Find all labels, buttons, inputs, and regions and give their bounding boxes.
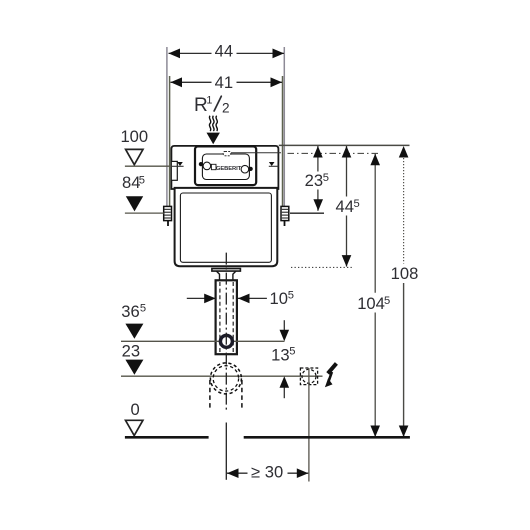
- dimension >=30 right arrow: [297, 468, 309, 478]
- level line 36.5: [121, 340, 285, 342]
- dimension 108 vertical line dotted part: [403, 152, 405, 264]
- dimension 44.5 top arrow: [342, 146, 352, 158]
- drain pipe dashed wall left: [209, 380, 211, 409]
- dimension >=30 left arrow: [227, 468, 239, 478]
- right frame rail inner: [282, 76, 284, 207]
- datum triangle 0 (open): [126, 420, 143, 435]
- svg-text:41: 41: [215, 73, 233, 92]
- svg-text:10: 10: [270, 289, 288, 308]
- svg-text:44: 44: [215, 42, 233, 61]
- cistern upper housing: [171, 146, 278, 189]
- left frame rail inner: [169, 76, 171, 207]
- svg-text:GEBERIT: GEBERIT: [216, 166, 242, 172]
- flush pipe body: [216, 280, 237, 354]
- svg-text:5: 5: [140, 302, 146, 314]
- water inlet arrow: [207, 133, 220, 145]
- tank outer: [175, 188, 278, 266]
- actuation tab: [223, 151, 231, 155]
- svg-text:23: 23: [305, 171, 323, 190]
- access panel outer: [195, 146, 256, 185]
- floor line left segment: [125, 436, 209, 439]
- dimension 23.5 bottom arrow: [313, 199, 323, 211]
- dimension 44.5 bottom arrow: [342, 255, 352, 267]
- dimension 41 right arrow: [271, 77, 283, 87]
- right water level mark: [269, 162, 279, 166]
- left screw circle: [203, 162, 211, 170]
- dimension 13.5 lower arrow: [283, 386, 285, 398]
- dimension 10.5: [187, 297, 267, 299]
- center axis line: [225, 253, 227, 412]
- dimension 23.5 vertical line: [317, 146, 319, 211]
- dimension 41 line: [171, 81, 283, 83]
- right frame rail outer: [283, 47, 285, 213]
- svg-text:5: 5: [384, 295, 390, 307]
- flush pipe inner dashed walls: [220, 282, 233, 353]
- dimension 13.5 upper arrow: [283, 320, 285, 331]
- left frame rail outer: [166, 47, 168, 213]
- dimension 23.5 top arrow: [313, 146, 323, 158]
- svg-text:13: 13: [271, 345, 289, 364]
- actuation reference line (dash-dot): [288, 152, 381, 154]
- svg-text:5: 5: [288, 289, 294, 301]
- datum triangle 23 (filled): [125, 360, 143, 375]
- dimension 104.5 top arrow: [370, 154, 380, 166]
- left water level mark: [172, 162, 184, 166]
- top reference line: [279, 144, 410, 146]
- svg-text:5: 5: [354, 198, 360, 210]
- dimension 108 top arrow: [399, 146, 409, 158]
- svg-text:0: 0: [130, 400, 139, 419]
- drain pipe dashed wall right: [241, 380, 243, 409]
- dimension >=30 line: [227, 472, 308, 474]
- drain pipe dashed circle outer: [210, 363, 241, 394]
- svg-text:44: 44: [336, 197, 354, 216]
- floor line right segment: [244, 436, 410, 439]
- water inlet squiggles: [209, 116, 217, 131]
- svg-text:5: 5: [289, 346, 295, 358]
- level line 84.5: [125, 212, 164, 214]
- lightning bolt: [328, 363, 337, 373]
- electrical box vertical line: [308, 368, 310, 482]
- datum triangle 36.5 (filled): [125, 324, 143, 339]
- left mounting bracket: [164, 206, 172, 226]
- dimension 10.5 right arrow: [238, 294, 250, 304]
- dimension 104.5 bottom arrow: [370, 426, 380, 438]
- svg-text:5: 5: [139, 174, 145, 186]
- flush pipe flange: [212, 269, 241, 272]
- level line 23: [121, 375, 323, 377]
- dimension 108 vertical line solid part: [403, 283, 405, 437]
- svg-text:100: 100: [120, 127, 148, 146]
- geberit logo box: [211, 164, 216, 169]
- svg-text:1: 1: [206, 95, 212, 107]
- dimension 10.5 left arrow: [204, 294, 216, 304]
- datum triangle 100 (open): [126, 149, 143, 164]
- svg-text:84: 84: [122, 173, 140, 192]
- access panel inner: [202, 154, 249, 180]
- dimension 44 right arrow: [273, 49, 285, 59]
- svg-text:5: 5: [323, 172, 329, 184]
- dimension 44.5 vertical line: [346, 146, 348, 267]
- right screw circle: [241, 165, 249, 173]
- level line 100: [125, 165, 171, 167]
- outlet ring: [220, 335, 232, 347]
- label R1/2: [194, 95, 230, 116]
- dimension 44 left arrow: [169, 49, 181, 59]
- svg-text:104: 104: [357, 294, 385, 313]
- electrical box dashed circle: [302, 369, 316, 383]
- actuation reference line (solid part): [231, 152, 281, 154]
- left screw dot: [199, 162, 203, 166]
- flush pipe neck: [216, 271, 236, 280]
- svg-text:2: 2: [222, 101, 230, 116]
- svg-text:23: 23: [122, 342, 140, 361]
- svg-text:108: 108: [391, 264, 419, 283]
- svg-text:≥ 30: ≥ 30: [251, 462, 283, 481]
- drain pipe dashed circle inner: [213, 366, 238, 391]
- dotted tick at 44.5 bottom: [291, 266, 352, 268]
- right screw dot: [249, 167, 253, 171]
- datum triangle 84.5 (filled): [126, 196, 143, 211]
- fill valve: [171, 161, 177, 180]
- dimension 104.5 vertical line: [374, 154, 376, 437]
- dimension 108 bottom arrow: [399, 426, 409, 438]
- electrical box dashed square: [300, 368, 317, 385]
- dimension 44 line: [169, 52, 285, 54]
- tank inner panel: [180, 193, 271, 262]
- right mounting bracket: [281, 206, 289, 226]
- dimension 41 left arrow: [171, 77, 183, 87]
- tick at 23.5 bottom: [290, 212, 324, 214]
- svg-text:36: 36: [121, 302, 139, 321]
